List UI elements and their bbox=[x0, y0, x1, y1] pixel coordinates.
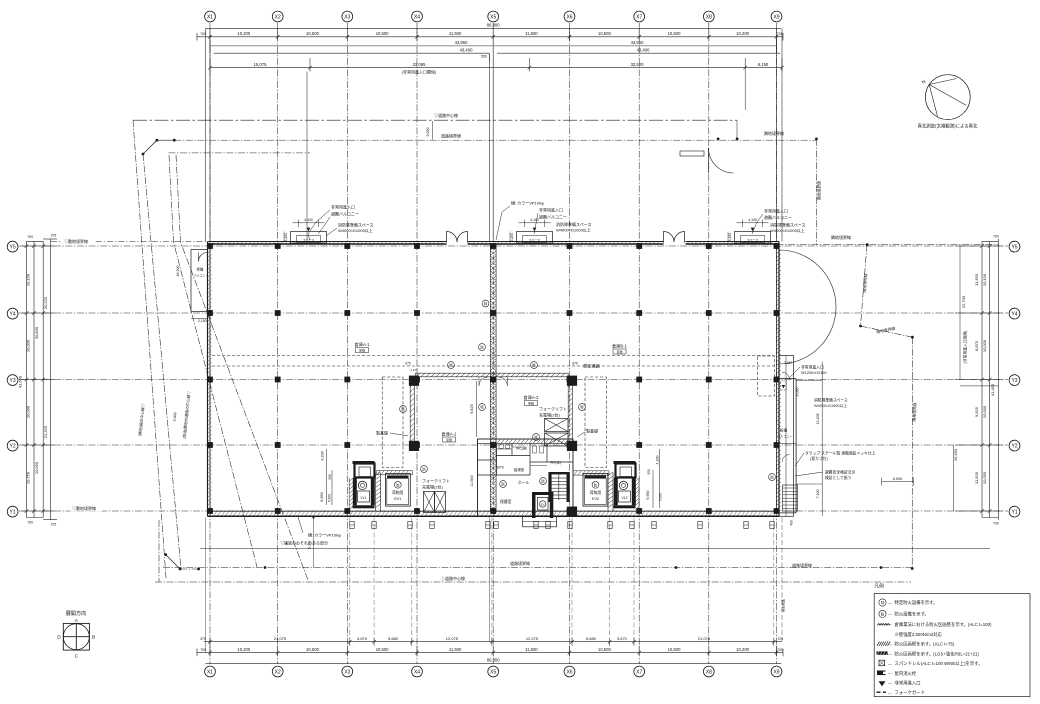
left wall hatch bbox=[208, 246, 212, 250]
svg-text:VL2: VL2 bbox=[621, 496, 627, 500]
svg-text:10,500: 10,500 bbox=[306, 31, 319, 36]
svg-text:給湯室: 給湯室 bbox=[514, 467, 525, 472]
svg-text:防: 防 bbox=[480, 345, 484, 350]
double door top wall bbox=[447, 232, 458, 243]
svg-text:10,500: 10,500 bbox=[306, 647, 319, 652]
svg-text:N: N bbox=[921, 79, 927, 85]
right stair hatch bbox=[783, 485, 798, 511]
svg-text:X5: X5 bbox=[490, 14, 496, 20]
grid line X9 bbox=[776, 23, 778, 664]
bottom overall dimension 86,800 bbox=[205, 663, 781, 665]
svg-text:13,205: 13,205 bbox=[816, 414, 820, 425]
svg-text:スパンドレル(ALC t=100 W900以上)を示す。: スパンドレル(ALC t=100 W900以上)を示す。 bbox=[895, 660, 983, 667]
building top wall bbox=[208, 241, 447, 243]
svg-text:防: 防 bbox=[770, 475, 774, 480]
svg-text:検証として扱う: 検証として扱う bbox=[825, 475, 852, 480]
svg-text:86,800: 86,800 bbox=[487, 658, 500, 663]
site boundary label bottom-left bbox=[70, 506, 102, 512]
top dimension row 43,950 bbox=[210, 45, 493, 47]
top road boundary line bbox=[174, 139, 816, 141]
emergency entrance porch bbox=[735, 232, 771, 244]
bottom-left boundary jog bbox=[158, 520, 160, 582]
svg-text:12,075: 12,075 bbox=[446, 636, 459, 641]
left wall door arc bbox=[199, 253, 208, 262]
axis bubble X5 top bbox=[488, 11, 499, 22]
svg-text:倉庫A-2: 倉庫A-2 bbox=[524, 394, 540, 401]
building right wall bbox=[778, 242, 780, 517]
svg-text:―: ― bbox=[888, 662, 892, 666]
double door top wall bbox=[664, 232, 675, 243]
svg-text:10,200: 10,200 bbox=[736, 31, 749, 36]
building left wall bbox=[207, 242, 209, 517]
top dimension sub-chain row bbox=[210, 67, 782, 69]
svg-text:10,000: 10,000 bbox=[26, 405, 31, 418]
building bottom wall bbox=[208, 510, 780, 512]
svg-text:X2: X2 bbox=[275, 14, 281, 20]
axis bubble X4 top bbox=[412, 11, 423, 22]
svg-text:EV1: EV1 bbox=[394, 497, 401, 501]
bottom wall hatch bbox=[209, 511, 213, 516]
neighbor boundary line vertical bbox=[815, 139, 817, 245]
svg-text:荷物用: 荷物用 bbox=[392, 490, 404, 495]
svg-text:▽護梁のおそれのある部分: ▽護梁のおそれのある部分 bbox=[280, 540, 328, 546]
freight elevator EV1 bbox=[386, 473, 411, 506]
svg-text:5,550: 5,550 bbox=[659, 493, 663, 501]
extension line x=307 bbox=[306, 72, 308, 241]
axis bubble Y3 right bbox=[1009, 375, 1020, 386]
svg-text:倉庫A-1: 倉庫A-1 bbox=[355, 341, 371, 348]
svg-text:W4000×D1000以上: W4000×D1000以上 bbox=[556, 226, 591, 232]
door swings in Y3 firewall beside X5 bbox=[479, 377, 488, 386]
axis bubble X2 bottom bbox=[272, 666, 283, 677]
svg-text:バルコニー: バルコニー bbox=[194, 274, 209, 278]
grid line X3 bbox=[346, 23, 348, 664]
svg-text:スペース: スペース bbox=[747, 237, 759, 242]
svg-text:700: 700 bbox=[993, 235, 999, 239]
svg-text:防火区画壁を示す。(LGS+強化PBL=21+21): 防火区画壁を示す。(LGS+強化PBL=21+21) bbox=[895, 650, 980, 657]
svg-text:10,100: 10,100 bbox=[26, 273, 31, 286]
assumed passage dashed band horizontal bbox=[212, 355, 774, 357]
right wall hatched strip bbox=[777, 246, 781, 250]
svg-text:(非常用進入口関係): (非常用進入口関係) bbox=[402, 69, 437, 75]
svg-text:バルコニー: バルコニー bbox=[777, 435, 793, 439]
svg-text:至積: 至積 bbox=[359, 348, 365, 353]
svg-text:Y2: Y2 bbox=[10, 443, 16, 449]
svg-text:△道路中心線: △道路中心線 bbox=[441, 575, 465, 581]
fire-protection circle symbols bbox=[448, 362, 455, 369]
big double-door swing arcs on right wall bbox=[779, 250, 836, 307]
svg-text:Y5: Y5 bbox=[1011, 244, 1017, 250]
svg-text:―: ― bbox=[888, 681, 892, 685]
svg-text:10,500: 10,500 bbox=[598, 647, 611, 652]
svg-text:排水側溝: 排水側溝 bbox=[781, 598, 786, 612]
axis bubble Y4 left bbox=[7, 308, 18, 319]
svg-text:10,000: 10,000 bbox=[982, 405, 987, 418]
svg-text:倉庫業法における防火区画壁を示す。(ALC t=100): 倉庫業法における防火区画壁を示す。(ALC t=100) bbox=[895, 621, 993, 628]
column blocks at firewall ends bbox=[409, 376, 419, 386]
grid line X8 bbox=[708, 23, 710, 664]
jog dots top of slant lines bbox=[156, 139, 159, 142]
legend row 2 fire equipment bbox=[879, 610, 886, 617]
svg-text:5,000: 5,000 bbox=[173, 412, 178, 421]
svg-text:EV: EV bbox=[541, 502, 545, 506]
svg-text:X8: X8 bbox=[706, 669, 712, 675]
assumed passage dashed right-edge box bbox=[758, 356, 775, 396]
svg-text:特: 特 bbox=[881, 600, 885, 605]
axis bubble Y2 right bbox=[1009, 440, 1020, 451]
axis bubble X1 top bbox=[205, 11, 216, 22]
svg-text:12,075: 12,075 bbox=[526, 636, 539, 641]
svg-text:非常用進入口: 非常用進入口 bbox=[801, 365, 824, 370]
central core outline bbox=[478, 439, 574, 516]
svg-text:Y4: Y4 bbox=[1011, 311, 1017, 317]
core inner walls bbox=[496, 443, 498, 475]
svg-text:倉庫A-1: 倉庫A-1 bbox=[442, 431, 458, 438]
svg-text:6,950: 6,950 bbox=[646, 491, 650, 500]
svg-text:(隣地)柵の中心線▽: (隣地)柵の中心線▽ bbox=[137, 403, 145, 436]
hatched wall above EV2 bbox=[573, 471, 609, 475]
svg-text:隣地境界線: 隣地境界線 bbox=[764, 130, 784, 136]
WC stall fixtures bbox=[497, 448, 513, 450]
hatched wall above EV1 bbox=[377, 471, 413, 475]
svg-text:16,300: 16,300 bbox=[176, 266, 180, 277]
legend box bbox=[874, 594, 1030, 697]
svg-text:避難バルコニー: 避難バルコニー bbox=[539, 214, 567, 220]
top road center line bbox=[133, 119, 737, 121]
svg-text:非常用進入口: 非常用進入口 bbox=[764, 208, 788, 214]
svg-text:隣地境界線: 隣地境界線 bbox=[817, 181, 822, 200]
axis bubble Y3 left bbox=[7, 375, 18, 386]
svg-text:避難安全検証法の: 避難安全検証法の bbox=[825, 470, 856, 475]
svg-text:41,500: 41,500 bbox=[18, 375, 23, 388]
svg-text:WC(女): WC(女) bbox=[550, 460, 561, 465]
svg-text:700: 700 bbox=[777, 648, 783, 652]
svg-text:10,000: 10,000 bbox=[982, 339, 987, 352]
right inner dimension lines bbox=[959, 246, 961, 380]
axis bubble X7 bottom bbox=[634, 666, 645, 677]
svg-text:フォークリフト: フォークリフト bbox=[422, 478, 450, 484]
svg-text:375: 375 bbox=[778, 637, 784, 641]
svg-text:Y4: Y4 bbox=[10, 311, 16, 317]
axis bubble X5 bottom bbox=[488, 666, 499, 677]
svg-text:C: C bbox=[75, 654, 79, 660]
svg-text:防: 防 bbox=[594, 482, 598, 487]
grid line Y2 bbox=[19, 444, 1008, 446]
svg-text:1,150: 1,150 bbox=[284, 233, 288, 241]
grid line Y4 bbox=[19, 312, 1008, 314]
svg-text:防火区画壁を示す。(ALC t=75): 防火区画壁を示す。(ALC t=75) bbox=[895, 640, 955, 647]
right small door arcs bbox=[782, 372, 790, 380]
axis bubble Y1 right bbox=[1009, 506, 1020, 517]
grid line X5 bbox=[492, 23, 494, 664]
svg-text:11,500: 11,500 bbox=[449, 31, 462, 36]
svg-text:X1: X1 bbox=[207, 669, 213, 675]
svg-text:10,200: 10,200 bbox=[237, 647, 250, 652]
svg-text:防火設備を示す。: 防火設備を示す。 bbox=[895, 611, 929, 618]
svg-text:X4: X4 bbox=[414, 669, 420, 675]
bottom road center line bbox=[155, 581, 911, 583]
svg-text:10,500: 10,500 bbox=[668, 647, 681, 652]
svg-text:B: B bbox=[92, 635, 95, 641]
firewall hatched vertical right at X6 bbox=[568, 377, 572, 443]
neighbor boundary line right of building bbox=[777, 244, 1000, 246]
legend row 10 fork guard bbox=[877, 691, 887, 693]
svg-text:2,150: 2,150 bbox=[198, 319, 207, 323]
grid line X6 bbox=[569, 23, 571, 664]
grid line X2 bbox=[277, 23, 279, 664]
left maintenance balcony bbox=[191, 250, 208, 312]
svg-text:スペース: スペース bbox=[529, 237, 541, 242]
svg-text:非常用進入口: 非常用進入口 bbox=[331, 204, 355, 210]
legend row 1 special fire equipment bbox=[879, 599, 886, 606]
svg-text:※壁強度2,500N/m2対応: ※壁強度2,500N/m2対応 bbox=[895, 631, 943, 638]
svg-text:10,100: 10,100 bbox=[982, 273, 987, 286]
axis bubble X4 bottom bbox=[412, 666, 423, 677]
right balcony outer line bbox=[795, 379, 797, 513]
svg-text:32,520: 32,520 bbox=[631, 62, 644, 67]
svg-text:10,050: 10,050 bbox=[34, 461, 39, 474]
svg-text:EV2: EV2 bbox=[592, 497, 599, 501]
axis bubble X3 bottom bbox=[342, 666, 353, 677]
svg-text:―: ― bbox=[888, 652, 892, 656]
svg-text:Y3: Y3 bbox=[10, 378, 16, 384]
hatch strip right of VL2 bbox=[638, 478, 640, 511]
extension line x=745 bbox=[744, 72, 746, 111]
svg-text:設備: 設備 bbox=[780, 428, 788, 433]
svg-text:至積: 至積 bbox=[616, 349, 622, 354]
svg-text:▽道路中心線: ▽道路中心線 bbox=[434, 112, 458, 118]
svg-text:凡例: 凡例 bbox=[875, 583, 885, 590]
svg-text:11,350: 11,350 bbox=[974, 273, 979, 286]
svg-text:11,500: 11,500 bbox=[525, 31, 538, 36]
svg-text:―: ― bbox=[888, 672, 892, 676]
svg-text:Y1: Y1 bbox=[10, 509, 16, 515]
svg-text:43,950: 43,950 bbox=[631, 40, 644, 45]
svg-text:―: ― bbox=[888, 691, 892, 695]
svg-text:30,800: 30,800 bbox=[34, 326, 39, 339]
grid line Y1 bbox=[19, 510, 1008, 512]
svg-text:Y5: Y5 bbox=[10, 244, 16, 250]
svg-text:W4000×D1000以上: W4000×D1000以上 bbox=[338, 227, 373, 233]
grid line X4 bbox=[416, 23, 418, 664]
axis bubble X9 top bbox=[771, 11, 782, 22]
emergency entrance porch bbox=[517, 232, 553, 244]
axis bubble X8 bottom bbox=[703, 666, 714, 677]
svg-text:8,875: 8,875 bbox=[974, 340, 979, 351]
svg-text:製基礎: 製基礎 bbox=[586, 428, 598, 434]
svg-text:675: 675 bbox=[572, 362, 578, 366]
svg-text:特: 特 bbox=[480, 405, 484, 410]
svg-text:修繕: 修繕 bbox=[197, 267, 204, 272]
svg-text:11,500: 11,500 bbox=[974, 471, 979, 484]
emergency entrance porch bbox=[291, 232, 327, 244]
svg-text:375: 375 bbox=[51, 523, 57, 527]
svg-text:3,670: 3,670 bbox=[357, 636, 368, 641]
dimension 5000 left bottom bbox=[313, 518, 315, 568]
svg-text:X5: X5 bbox=[490, 669, 496, 675]
svg-text:屋内消火栓: 屋内消火栓 bbox=[895, 670, 917, 677]
left slanted boundary line 1 bbox=[133, 120, 166, 578]
legend row 7 spandrel bbox=[879, 660, 885, 666]
stub columns below bottom wall bbox=[350, 522, 354, 529]
svg-text:―: ― bbox=[888, 601, 892, 605]
elevator shaft dark U bbox=[532, 492, 536, 518]
svg-text:X1: X1 bbox=[207, 14, 213, 20]
right dimension vertical 13205/7100 bbox=[821, 362, 823, 517]
svg-text:10,500: 10,500 bbox=[376, 31, 389, 36]
svg-text:隣地境界線: 隣地境界線 bbox=[831, 234, 851, 240]
svg-text:33,095: 33,095 bbox=[413, 62, 426, 67]
svg-text:真北測定(太陽観測)による真北: 真北測定(太陽観測)による真北 bbox=[918, 123, 978, 130]
svg-text:樋: カラーVP100φ: 樋: カラーVP100φ bbox=[308, 532, 341, 538]
svg-text:特: 特 bbox=[449, 363, 453, 368]
svg-text:10,000: 10,000 bbox=[26, 339, 31, 352]
core hatched top wall bbox=[497, 439, 501, 443]
freight elevator EV2 bbox=[583, 473, 608, 506]
svg-text:X7: X7 bbox=[636, 14, 642, 20]
svg-text:道路境界線: 道路境界線 bbox=[792, 562, 812, 568]
svg-text:ホール: ホール bbox=[518, 480, 530, 485]
X9 double vertical above building bbox=[781, 29, 783, 242]
svg-text:4,050: 4,050 bbox=[796, 388, 800, 397]
left slanted boundary line 2 bbox=[143, 154, 181, 569]
svg-text:1,175: 1,175 bbox=[410, 368, 418, 372]
svg-text:X9: X9 bbox=[773, 14, 779, 20]
svg-text:防: 防 bbox=[501, 482, 505, 487]
svg-text:倉庫B-1: 倉庫B-1 bbox=[612, 343, 628, 350]
svg-text:7,100: 7,100 bbox=[816, 490, 820, 499]
svg-text:特: 特 bbox=[532, 363, 536, 368]
svg-text:VL1: VL1 bbox=[360, 496, 366, 500]
hatch strip left of VL1 bbox=[348, 478, 350, 511]
svg-text:至積: 至積 bbox=[446, 437, 452, 442]
svg-text:5,680: 5,680 bbox=[586, 636, 597, 641]
svg-text:700: 700 bbox=[27, 521, 33, 525]
svg-text:タラップ:スチール製 溶融亜鉛メッキ仕上: タラップ:スチール製 溶融亜鉛メッキ仕上 bbox=[805, 451, 876, 456]
svg-text:43,950: 43,950 bbox=[455, 40, 468, 45]
svg-text:4,100: 4,100 bbox=[748, 218, 757, 222]
svg-text:道路境界線: 道路境界線 bbox=[441, 133, 461, 139]
svg-text:X3: X3 bbox=[344, 669, 350, 675]
svg-text:(背カゴ付): (背カゴ付) bbox=[810, 456, 828, 461]
assumed passage dashed vertical right bbox=[585, 377, 607, 468]
extension doubles below building at X1 and X5 bbox=[204, 518, 206, 653]
grid line Y3 bbox=[19, 379, 1008, 381]
svg-text:375: 375 bbox=[51, 234, 57, 238]
legend row 6 LGS firewall bbox=[877, 651, 889, 654]
svg-text:防: 防 bbox=[396, 482, 400, 487]
axis bubble Y2 left bbox=[7, 440, 18, 451]
svg-text:9,825: 9,825 bbox=[974, 406, 979, 417]
svg-text:9,000: 9,000 bbox=[426, 128, 430, 137]
axis bubble X9 bottom bbox=[771, 666, 782, 677]
svg-text:X6: X6 bbox=[566, 669, 572, 675]
svg-text:15,075: 15,075 bbox=[254, 62, 267, 67]
svg-text:21,075: 21,075 bbox=[274, 636, 287, 641]
svg-text:防: 防 bbox=[541, 479, 545, 484]
balcony top small features bbox=[781, 381, 787, 390]
neighbor boundary polyline right site bbox=[861, 245, 868, 326]
svg-text:防: 防 bbox=[401, 407, 405, 412]
top dimension row 43,400 bbox=[214, 52, 490, 54]
svg-text:特定防火設備を示す。: 特定防火設備を示す。 bbox=[895, 599, 938, 606]
hatch wall between VL1 and EV1 bbox=[376, 472, 381, 476]
site boundary line top-left bbox=[51, 240, 208, 242]
svg-text:20,225: 20,225 bbox=[43, 296, 48, 309]
left dimension lines bbox=[26, 241, 28, 517]
svg-text:―: ― bbox=[888, 642, 892, 646]
svg-text:X3: X3 bbox=[344, 14, 350, 20]
svg-text:X8: X8 bbox=[706, 14, 712, 20]
assumed passage dashed vertical left bbox=[382, 377, 403, 468]
arrowhead at x=310 entrance leader bbox=[308, 234, 310, 241]
svg-text:―: ― bbox=[888, 623, 892, 627]
columns at grid intersections bbox=[207, 243, 213, 249]
svg-text:10,500: 10,500 bbox=[668, 31, 681, 36]
svg-text:スペース: スペース bbox=[303, 237, 315, 242]
axis bubble Y1 left bbox=[7, 506, 18, 517]
svg-text:4,100: 4,100 bbox=[530, 218, 539, 222]
legend row 8 indoor hydrant bbox=[877, 671, 886, 676]
svg-text:950: 950 bbox=[647, 469, 651, 475]
svg-text:4,100: 4,100 bbox=[304, 218, 313, 222]
secondary boundary line bbox=[168, 152, 310, 154]
legend row 9 emergency entrance bbox=[879, 681, 886, 686]
gate arc top site bbox=[709, 148, 734, 173]
legend row 3 warehouse firewall bbox=[878, 624, 880, 626]
svg-text:―: ― bbox=[888, 612, 892, 616]
svg-text:D: D bbox=[57, 635, 61, 641]
svg-text:X4: X4 bbox=[414, 14, 420, 20]
svg-text:3,670: 3,670 bbox=[617, 636, 628, 641]
svg-text:21,075: 21,075 bbox=[698, 636, 711, 641]
svg-text:16,450: 16,450 bbox=[953, 448, 958, 461]
svg-text:41,450: 41,450 bbox=[990, 383, 995, 396]
svg-text:5,400: 5,400 bbox=[328, 494, 332, 502]
canopy line below building bbox=[200, 547, 990, 549]
svg-text:防: 防 bbox=[881, 611, 885, 616]
svg-text:10,500: 10,500 bbox=[598, 31, 611, 36]
svg-text:フォークリフト: フォークリフト bbox=[539, 406, 567, 412]
svg-text:至積: 至積 bbox=[528, 401, 534, 406]
svg-text:消防隊準備スペース: 消防隊準備スペース bbox=[814, 398, 848, 403]
svg-text:10,200: 10,200 bbox=[736, 647, 749, 652]
axis bubble X2 top bbox=[272, 11, 283, 22]
svg-text:W1200×H2100: W1200×H2100 bbox=[801, 371, 826, 375]
stair block bbox=[548, 474, 551, 502]
svg-text:22,700: 22,700 bbox=[961, 295, 966, 308]
svg-text:Y3: Y3 bbox=[1011, 378, 1017, 384]
bottom dimension sub-chain row bbox=[204, 641, 782, 643]
axis bubble Y5 left bbox=[7, 241, 18, 252]
svg-text:フォークガード: フォークガード bbox=[895, 689, 925, 696]
grid line Y5 bbox=[19, 245, 1008, 247]
svg-text:X9: X9 bbox=[773, 669, 779, 675]
firewall X5 hatched strip bbox=[490, 244, 496, 511]
svg-text:1,150: 1,150 bbox=[510, 233, 514, 241]
axis bubble X6 bottom bbox=[564, 666, 575, 677]
svg-text:製基礎: 製基礎 bbox=[376, 430, 388, 436]
svg-text:11,500: 11,500 bbox=[525, 647, 538, 652]
svg-text:950: 950 bbox=[328, 474, 332, 480]
svg-text:想定通路: 想定通路 bbox=[583, 362, 601, 369]
svg-text:43,400: 43,400 bbox=[637, 48, 650, 53]
svg-text:(給油)敷地内通路の中心線▽: (給油)敷地内通路の中心線▽ bbox=[182, 390, 192, 439]
svg-text:10,750: 10,750 bbox=[26, 471, 31, 484]
svg-text:特: 特 bbox=[484, 301, 488, 306]
svg-text:非常用進入口: 非常用進入口 bbox=[895, 680, 921, 687]
svg-text:▽敷地境界線: ▽敷地境界線 bbox=[64, 238, 88, 244]
